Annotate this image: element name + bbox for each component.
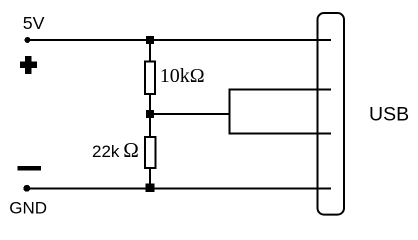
junction: node C (ground rail)	[146, 183, 155, 192]
svg-text:22k: 22k	[92, 142, 120, 161]
symbol: minus (negative terminal)	[18, 166, 41, 171]
wire: ground rail from GND node to USB pin4	[27, 187, 331, 189]
wire: R1 bottom to node B	[149, 93, 151, 114]
junction: node B (divider midpoint)	[146, 110, 154, 118]
wire: node A to R1 top	[149, 40, 151, 63]
svg-text:10kΩ: 10kΩ	[160, 65, 205, 87]
node: 5V terminal dot	[25, 37, 31, 43]
resistor R2 22k body	[145, 137, 156, 168]
symbol: plus (positive terminal)	[20, 56, 37, 74]
wire: R2 bottom to node C	[149, 168, 151, 188]
wire: 5V rail from node to USB pin1	[27, 39, 331, 41]
junction: node A (5V rail / divider top)	[146, 36, 154, 44]
wire: data branch vertical tie	[229, 89, 231, 135]
node: GND terminal dot	[23, 185, 30, 192]
svg-text:Ω: Ω	[123, 138, 139, 162]
svg-text:USB: USB	[369, 104, 409, 126]
connector: USB socket outline	[318, 13, 345, 215]
svg-text:5V: 5V	[23, 13, 45, 33]
wire: pin D+ into USB	[230, 133, 332, 135]
svg-text:GND: GND	[9, 199, 47, 218]
resistor R1 10k body	[145, 62, 155, 95]
wire: node B to data branch	[150, 113, 231, 115]
wire: node B to R2 top	[149, 114, 151, 138]
wire: pin D- into USB	[230, 89, 332, 91]
